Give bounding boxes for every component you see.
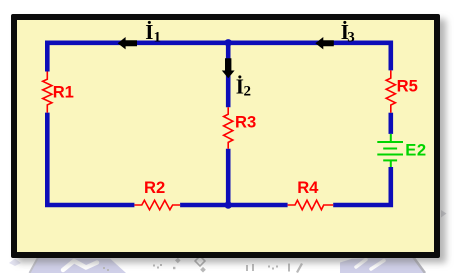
watermark faint glyphs	[103, 258, 303, 273]
watermark diamond outline	[195, 256, 205, 266]
svg-text:R5: R5	[397, 77, 418, 96]
svg-text:2: 2	[244, 84, 252, 100]
node bottom junction	[225, 201, 232, 208]
watermark corner smudge	[9, 259, 21, 267]
resistor R3	[224, 107, 233, 149]
svg-text:İ: İ	[145, 20, 153, 44]
svg-text:R1: R1	[53, 83, 74, 102]
watermark left diamond logo	[30, 258, 127, 273]
resistor R2	[134, 200, 180, 209]
wire middle lower	[226, 149, 231, 205]
resistor R5	[386, 70, 395, 112]
svg-text:3: 3	[347, 30, 355, 46]
svg-text:R2: R2	[144, 178, 165, 197]
arrow I1	[118, 37, 137, 49]
wire bottom right + right lower	[333, 167, 391, 205]
watermark right logo	[340, 256, 425, 273]
wire left lower + bottom to R2	[47, 113, 134, 205]
battery E2	[377, 134, 403, 167]
wire bottom middle R2 to R4	[180, 203, 288, 208]
arrow I3	[315, 37, 334, 49]
svg-text:1: 1	[154, 30, 162, 46]
resistor R4	[288, 200, 334, 209]
svg-text:R4: R4	[297, 178, 319, 197]
svg-text:E2: E2	[405, 141, 426, 160]
resistor R1	[43, 72, 52, 113]
arrow I2	[222, 58, 235, 78]
node top junction	[225, 39, 232, 46]
wire right between R5 and E2	[388, 113, 393, 134]
svg-text:R3: R3	[235, 112, 256, 131]
wire top-left loop: left upper, top, right upper	[47, 43, 391, 72]
wire middle upper	[226, 43, 231, 108]
